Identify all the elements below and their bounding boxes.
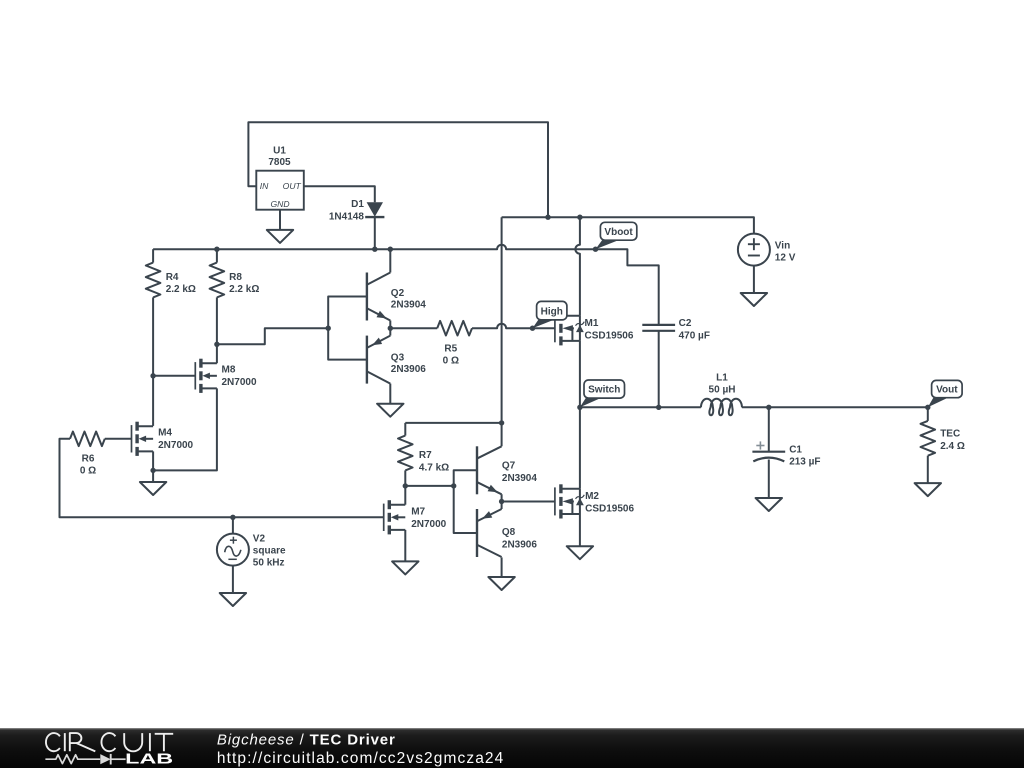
node junction Vin rail / M1 drain column: [577, 215, 582, 220]
transistor Q7 2N3904: [476, 446, 478, 494]
resistor R4 2.2k: [146, 263, 161, 298]
node flag Vboot: [600, 222, 636, 240]
resistor R7 4.7k: [398, 436, 413, 471]
svg-text:Vboot: Vboot: [604, 227, 633, 238]
wire U1 OUT to D1 anode: [304, 186, 375, 202]
ground Q8: [488, 577, 514, 590]
logo CircuitLab wordmark CIRCUIT: [46, 733, 60, 751]
wire boot rail y=249 with hop over x=501.6 column, step down to C2: [153, 245, 659, 325]
svg-text:Q8: Q8: [502, 527, 516, 538]
node junction base frame / R8 drive: [326, 326, 331, 331]
svg-text:0 Ω: 0 Ω: [443, 356, 459, 367]
svg-text:C1: C1: [789, 445, 802, 456]
svg-text:Vin: Vin: [775, 240, 790, 251]
wire Q2/Q3 base frame: [328, 297, 367, 360]
inductor L1 50uH: [701, 399, 742, 416]
op-amp U1 7805 regulator box: [256, 171, 304, 210]
svg-text:213 µF: 213 µF: [789, 457, 820, 468]
svg-text:2N3906: 2N3906: [502, 539, 537, 550]
svg-text:D1: D1: [351, 199, 364, 210]
voltage source Vin 12V: [738, 234, 770, 266]
svg-text:M4: M4: [158, 428, 172, 439]
resistor TEC 2.4 ohm: [921, 421, 936, 456]
svg-text:50 kHz: 50 kHz: [253, 558, 285, 569]
wire M2 source to ground: [579, 514, 581, 546]
svg-text:R4: R4: [166, 272, 179, 283]
svg-text:L1: L1: [716, 372, 728, 383]
wire V2 leads: [232, 517, 234, 533]
node flag Switch: [584, 380, 625, 398]
svg-text:1N4148: 1N4148: [329, 211, 364, 222]
wire U1 input loop from IN pin up and over to Vin rail: [248, 122, 548, 217]
svg-text:V2: V2: [253, 533, 266, 544]
wire R7 top tap: [405, 422, 501, 424]
svg-text:Q7: Q7: [502, 461, 516, 472]
svg-text:High: High: [541, 306, 563, 317]
svg-text:Q3: Q3: [391, 352, 405, 363]
ground M7: [392, 561, 418, 574]
svg-text:M8: M8: [222, 365, 236, 376]
wire emitters to R5 left: [390, 327, 437, 329]
node junction R7 tap / Q7 collector column: [499, 420, 504, 425]
svg-text:2.2 kΩ: 2.2 kΩ: [166, 284, 196, 295]
svg-text:M2: M2: [585, 491, 599, 502]
wire R8 bottom to base frame: [217, 328, 328, 344]
ground C1: [756, 498, 782, 511]
wire Switch output line y=407.3: [580, 406, 701, 408]
node junction R8 bottom / M8 drain: [214, 342, 219, 347]
svg-text:Switch: Switch: [588, 385, 620, 396]
wire C2 bottom column: [658, 331, 660, 408]
wire vertical column x=501.6 (Vin rail down to R7 tap): [501, 217, 503, 423]
svg-text:Q2: Q2: [391, 288, 405, 299]
wire Q8 emitter riser: [501, 502, 503, 510]
svg-text:U1: U1: [273, 146, 286, 157]
wire M4 gate from R6: [105, 438, 132, 440]
transistor M7 2N7000: [383, 504, 385, 531]
wire R7 leads / M7 drain: [404, 423, 406, 436]
node junction boot rail / R8: [214, 247, 219, 252]
wire M2 drain column from Switch node: [579, 407, 581, 489]
resistor R6 0 ohm: [70, 432, 105, 447]
resistor R8 2.2k: [210, 263, 225, 298]
wire Q2/Q3 emitter junction riser: [389, 321, 391, 329]
svg-text:M7: M7: [411, 507, 425, 518]
svg-text:R5: R5: [444, 344, 457, 355]
capacitor C1 213uF polarized: [752, 451, 785, 453]
wire M8 source down and left to M4 source: [153, 388, 217, 470]
svg-text:CSD19506: CSD19506: [585, 503, 634, 514]
wire R5 right to M1 gate with hop over x=501.6 column: [472, 324, 555, 329]
svg-text:2N3904: 2N3904: [391, 300, 426, 311]
svg-text:C2: C2: [679, 318, 692, 329]
wire M8 gate: [153, 375, 195, 377]
svg-text:TEC: TEC: [940, 429, 960, 440]
node junction Switch line / C2 bottom: [656, 405, 661, 410]
wire R4 column (rail to M4 drain): [152, 249, 154, 262]
ground U1: [267, 230, 293, 243]
transistor M2 CSD19506 low side: [554, 487, 556, 515]
svg-text:R8: R8: [229, 272, 242, 283]
ground M4: [140, 482, 166, 495]
wire Vin 12V rail y=217 with corner down to Vin source: [502, 217, 754, 233]
node junction R7 bottom / M7 drain / Q7-Q8 base drive: [403, 483, 408, 488]
svg-text:M1: M1: [585, 318, 599, 329]
capacitor C2 470uF: [642, 324, 675, 326]
svg-text:LAB: LAB: [125, 752, 173, 768]
svg-text:IN: IN: [260, 181, 269, 191]
transistor Q2 2N3904: [366, 273, 368, 321]
svg-text:2.2 kΩ: 2.2 kΩ: [229, 284, 259, 295]
svg-text:2N7000: 2N7000: [158, 440, 193, 451]
node junction boot rail / Q2 collector: [388, 247, 393, 252]
wire Q7 collector riser: [501, 423, 503, 446]
svg-text:2N7000: 2N7000: [411, 519, 446, 530]
svg-text:4.7 kΩ: 4.7 kΩ: [419, 462, 449, 473]
svg-text:Vout: Vout: [936, 385, 958, 396]
svg-text:CSD19506: CSD19506: [585, 330, 634, 341]
wire D1 cathode to boot rail: [374, 217, 376, 249]
logo resistor-diode glyph and LAB: [45, 755, 100, 764]
node junction boot rail / D1 cathode: [372, 247, 377, 252]
ground Vin: [741, 293, 767, 306]
svg-text:7805: 7805: [268, 157, 291, 168]
transistor M8 2N7000: [194, 362, 196, 389]
node flag High: [537, 301, 567, 320]
wire C1 leads: [768, 407, 770, 451]
resistor R5 0 ohm: [437, 321, 472, 336]
wire Q3 collector to ground: [389, 384, 391, 404]
wire TEC leads: [927, 407, 929, 421]
wire R8 column (rail to M8 drain): [216, 249, 218, 262]
node junction Q2/Q3 emitters to R5: [388, 326, 393, 331]
svg-text:2N3904: 2N3904: [502, 473, 537, 484]
wire U1 GND pin: [279, 210, 281, 230]
wire Q8 collector to ground: [501, 557, 503, 577]
svg-text:R7: R7: [419, 450, 432, 461]
svg-text:2N3906: 2N3906: [391, 364, 426, 375]
wire M4 source to ground: [152, 451, 154, 470]
node junction gate drive line / V2: [230, 515, 235, 520]
transistor M1 CSD19506 high side: [554, 314, 556, 342]
wire M1 source column to Switch node: [579, 341, 581, 407]
diode D1 1N4148: [367, 202, 383, 216]
svg-text:OUT: OUT: [283, 181, 302, 191]
wire Vin source bottom lead: [753, 266, 755, 293]
ground TEC: [915, 483, 941, 496]
svg-text:square: square: [253, 546, 286, 557]
node junction R4 column / M8 gate: [150, 373, 155, 378]
wire Q2 collector riser: [389, 249, 391, 272]
transistor M4 2N7000: [131, 425, 133, 452]
ground Q3: [377, 404, 403, 417]
voltage source V2 square 50kHz: [217, 534, 249, 566]
svg-text:Bigcheese / TEC Driver: Bigcheese / TEC Driver: [217, 731, 396, 748]
wire Q7 emitter riser and drive to M2 gate: [502, 494, 555, 501]
wire R6 left lead down to gate drive line y=517.3 to M7 gate: [60, 439, 384, 518]
svg-text:http://circuitlab.com/cc2vs2gm: http://circuitlab.com/cc2vs2gmcza24: [217, 750, 504, 767]
svg-text:50 µH: 50 µH: [709, 385, 736, 396]
node junction Q7/Q8 emitters: [499, 499, 504, 504]
wire M7 source to ground: [404, 530, 406, 562]
transistor Q3 2N3906: [366, 336, 368, 384]
svg-text:470 µF: 470 µF: [679, 330, 710, 341]
node junction base frame Q7/Q8: [451, 483, 456, 488]
svg-text:R6: R6: [82, 454, 95, 465]
svg-text:12 V: 12 V: [775, 253, 796, 264]
node flag Vout: [932, 380, 963, 397]
node junction Vin rail / U1 loop: [545, 215, 550, 220]
wire R7 bottom to Q7/Q8 base frame: [405, 485, 453, 487]
svg-text:0 Ω: 0 Ω: [80, 466, 96, 477]
ground V2: [220, 593, 246, 606]
svg-text:2N7000: 2N7000: [222, 377, 257, 388]
wire Q7/Q8 base frame: [454, 470, 477, 533]
node junction M4 source / M8 source: [150, 468, 155, 473]
wire M1 drain column with hop over boot rail: [575, 217, 580, 316]
node junction Switch line / C1 top: [766, 405, 771, 410]
transistor Q8 2N3906: [476, 509, 478, 557]
svg-text:GND: GND: [270, 199, 289, 209]
ground M2: [567, 546, 593, 559]
svg-text:2.4 Ω: 2.4 Ω: [940, 441, 965, 452]
